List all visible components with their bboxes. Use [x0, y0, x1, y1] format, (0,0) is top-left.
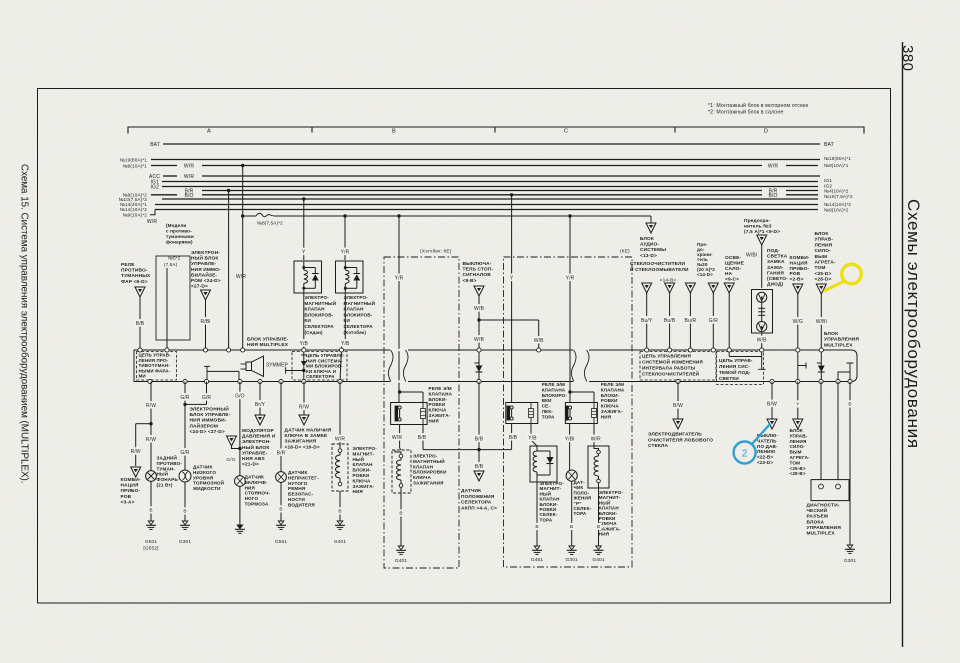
svg-text:B/B: B/B — [136, 321, 145, 327]
svg-text:СТЕКЛООЧИСТИТЕЛИИ СТЕКЛООМЫВАТ: СТЕКЛООЧИСТИТЕЛИИ СТЕКЛООМЫВАТЕЛИ — [630, 261, 689, 273]
svg-text:W/B: W/B — [757, 337, 767, 343]
wire cabin light — [728, 293, 730, 348]
key lock relay 2 — [565, 403, 597, 424]
fuse No20 connector — [708, 283, 718, 293]
svg-text:G401: G401 — [395, 558, 408, 564]
ignition lock illumination LED box — [752, 290, 773, 334]
svg-text:W/R: W/R — [768, 163, 778, 169]
svg-text:G401: G401 — [592, 557, 605, 563]
svg-text:В: В — [535, 524, 538, 530]
svg-text:ЭЛЕКТРОН-НЫЙ БЛОКУПРАВЛЕ-НИЯ И: ЭЛЕКТРОН-НЫЙ БЛОКУПРАВЛЕ-НИЯ ИММО-БИЛАЙЗ… — [191, 250, 221, 290]
KE variant box right — [504, 257, 633, 567]
svg-text:R/W: R/W — [131, 449, 141, 455]
R/W label upper — [145, 401, 156, 409]
W/Bl label powertrain — [814, 317, 828, 325]
ignition key lock solenoid dashed — [332, 444, 348, 491]
internal link fog output — [204, 366, 239, 381]
W/B label left branch — [473, 335, 484, 343]
svg-text:B/B: B/B — [475, 436, 484, 442]
wire Y powertrain bottom — [797, 382, 799, 420]
wire R/W to rear fog lamp — [150, 424, 152, 471]
stop lamp switch connector — [474, 286, 484, 296]
B label selector solenoid — [534, 523, 539, 530]
svg-text:Bu/R: Bu/R — [685, 318, 697, 324]
selector lock solenoid hatchback — [336, 261, 364, 293]
svg-text:Y/R: Y/R — [341, 249, 350, 255]
Y label powertrain bottom — [795, 400, 800, 407]
B/B label AT sensor — [473, 462, 484, 470]
wire W/B stop to mpx — [478, 320, 480, 348]
wire fuse No5 — [166, 268, 168, 348]
svg-text:W/Bl: W/Bl — [746, 253, 757, 259]
wire W/R relay to solenoid hatch — [399, 425, 401, 449]
fuse9-2 left bracket — [150, 210, 155, 215]
Y label selector relay — [509, 274, 514, 282]
fused branch line y216 — [243, 215, 256, 217]
svg-text:B/W: B/W — [673, 403, 683, 409]
svg-text:№4(10А)*2: №4(10А)*2 — [824, 189, 849, 194]
B label key lock — [337, 507, 342, 514]
bus line ACC W/R — [163, 175, 177, 177]
svg-text:Y: Y — [510, 275, 514, 281]
W/R label hatch — [391, 433, 402, 441]
svg-text:W/R: W/R — [184, 163, 194, 169]
ABS connector — [255, 415, 265, 425]
wire B selector solenoid — [536, 482, 538, 546]
wire B solenoid hatch — [400, 487, 402, 546]
selector lock relay — [506, 403, 538, 424]
svg-text:G/R: G/R — [180, 450, 190, 456]
wire Y solenoid sedan drop — [303, 199, 305, 260]
svg-text:IG2: IG2 — [150, 185, 159, 191]
B label P sensor — [569, 523, 574, 530]
wire W/R drop x243 — [242, 166, 244, 349]
W/R label key lock — [334, 435, 345, 443]
coil feed branch hatch relay — [400, 391, 423, 393]
wire W/B branch horizontal — [479, 319, 539, 321]
Bu/Y label — [640, 316, 654, 324]
svg-text:C: C — [564, 129, 568, 135]
outer page rule line — [902, 42, 904, 647]
svg-text:B/B: B/B — [509, 435, 518, 441]
svg-text:В: В — [399, 511, 402, 517]
Y/B label selector solenoid — [527, 434, 538, 442]
wire W/Bl powertrain — [820, 294, 822, 348]
svg-text:*2: Монтажный блок в салоне: *2: Монтажный блок в салоне — [708, 109, 783, 116]
rear fog lamp symbol — [146, 471, 157, 482]
blue highlight circle 2 — [734, 442, 756, 464]
junction dot Y selector relay — [510, 193, 513, 196]
selector-lock signal wire through box with arrow — [303, 350, 305, 361]
box break squiggles x573 — [571, 350, 576, 382]
terminal circles bottom edge — [148, 379, 152, 383]
box break gap x573 — [573, 349, 589, 351]
wire B/R seat belt — [280, 382, 282, 522]
page border frame — [38, 89, 891, 604]
svg-text:В: В — [183, 509, 186, 515]
svg-text:B/B: B/B — [475, 464, 484, 470]
coil feed branch key relay 2 — [570, 391, 594, 393]
powertrain wire internal diode — [820, 350, 822, 366]
svg-text:№9(10А)*2: №9(10А)*2 — [123, 213, 148, 218]
svg-text:В: В — [570, 524, 573, 530]
svg-text:Y/B: Y/B — [528, 435, 537, 441]
junction dot W/R line x243 — [241, 164, 244, 167]
wire R/W key-in — [303, 382, 305, 416]
fog control sub-circuit box — [137, 352, 177, 381]
wiper connector Bu/B — [665, 283, 675, 293]
svg-text:W/R: W/R — [147, 219, 157, 225]
svg-text:A: A — [207, 129, 211, 135]
wire B/W wiper motor — [677, 382, 679, 420]
G/R merge link — [185, 403, 207, 405]
wiper motor connector — [673, 419, 683, 429]
cluster connector 3A — [131, 467, 141, 477]
wire Br/Y — [259, 382, 261, 416]
B label seat belt — [278, 505, 283, 512]
ground G401 hatch — [398, 546, 404, 550]
bus line IG2 — [162, 186, 818, 188]
ground parking brake — [237, 525, 243, 529]
P position sensor symbol — [566, 470, 577, 481]
svg-text:W/R: W/R — [184, 174, 194, 180]
Y/B label hatch — [340, 339, 351, 347]
svg-text:D: D — [764, 129, 768, 135]
svg-text:В: В — [279, 507, 282, 513]
Bu/R label — [683, 316, 697, 324]
wire B key lock — [339, 491, 341, 521]
wire B rear fog to ground — [150, 481, 152, 521]
wire W/B right branch — [538, 320, 540, 348]
AT selector position connector — [474, 471, 484, 481]
wire G/R fuse20 — [712, 293, 714, 348]
bus line fuse10 — [162, 198, 818, 200]
ignition key lock solenoid 2 box — [588, 446, 609, 488]
svg-text:BAT: BAT — [824, 142, 834, 148]
yellow highlight circle — [842, 264, 862, 284]
svg-text:ЭЛЕКТРО-МАГНИТНЫЙКЛАПАНБЛОКИРО: ЭЛЕКТРО-МАГНИТНЫЙКЛАПАНБЛОКИРОВКИКЛЮЧАЗА… — [413, 454, 447, 486]
Y/Bl label — [563, 435, 577, 443]
R/W branch to cluster — [136, 423, 151, 425]
wire Y/Bl P sensor — [569, 424, 571, 471]
svg-text:B/W: B/W — [767, 401, 777, 407]
fuse No3 connector — [757, 235, 767, 245]
wire R/Bl immobilizer — [205, 300, 207, 348]
junction dot Y/R key relay — [568, 214, 571, 217]
B label solenoid hatch — [398, 509, 403, 516]
diagnostic connector box — [811, 480, 849, 501]
zone bracket — [128, 127, 864, 134]
svg-text:№9(10А)*1: №9(10А)*1 — [824, 163, 849, 168]
svg-text:G601: G601 — [145, 539, 158, 545]
wire Y/R key-lock relay hatch drop — [398, 216, 400, 403]
wire B/B down to AT sensor — [478, 450, 480, 470]
svg-text:№14(10А)*2: №14(10А)*2 — [824, 202, 851, 207]
box break gap x390 — [390, 349, 408, 351]
R/Bl label — [199, 317, 213, 325]
svg-text:В: В — [149, 508, 152, 514]
svg-text:G/R: G/R — [709, 318, 719, 324]
svg-text:BAT: BAT — [150, 142, 160, 148]
fog lamp relay connector — [135, 287, 145, 297]
immobilizer connector bottom — [227, 436, 237, 446]
wire B key solenoid 2 — [598, 483, 600, 546]
junction dot W/B branch — [477, 318, 480, 321]
B/B label fog relay wire — [134, 319, 145, 327]
ground G551 — [278, 521, 284, 525]
svg-text:W/R: W/R — [591, 436, 601, 442]
immobilizer ecu connector — [201, 290, 211, 300]
fuse No5 box — [156, 256, 190, 340]
bus line fuse19 — [151, 159, 820, 161]
wire to diag connector b — [837, 382, 839, 480]
W/G label — [792, 317, 803, 325]
svg-text:R/Bl: R/Bl — [200, 319, 210, 325]
cabin light connector — [724, 283, 734, 293]
svg-text:ЭЛЕКТРОННЫЙБЛОК УПРАВЛЕ-НИЯ ИМ: ЭЛЕКТРОННЫЙБЛОК УПРАВЛЕ-НИЯ ИММОБИ-ЛАЙЗЕ… — [190, 405, 231, 435]
ground G401 right — [596, 546, 602, 550]
G/R label merged — [179, 448, 190, 456]
Y/B label sedan — [298, 339, 309, 347]
svg-text:G401: G401 — [334, 539, 347, 545]
wire Y/B selector solenoid — [530, 424, 532, 441]
svg-text:Bu/B: Bu/B — [664, 318, 676, 324]
svg-text:B/O: B/O — [768, 193, 777, 199]
svg-text:Y/R: Y/R — [566, 275, 575, 281]
svg-text:G301: G301 — [844, 558, 857, 564]
wiper connector Bu/R — [685, 283, 695, 293]
wire B/B fog relay — [139, 297, 141, 348]
svg-text:№14(10А)*2: №14(10А)*2 — [120, 207, 147, 212]
wire W/G cluster — [797, 294, 799, 348]
svg-text:2: 2 — [742, 449, 748, 460]
wire W/B LED to mpx — [761, 333, 763, 348]
B/W label wiper motor — [673, 401, 684, 409]
wire Y/B sedan solenoid to mpx — [303, 293, 305, 348]
svg-text:G/R: G/R — [180, 395, 190, 401]
B/B net horizontal — [423, 449, 512, 451]
svg-text:G/O: G/O — [226, 457, 235, 463]
W/B label right branch — [533, 336, 544, 344]
svg-text:№10(7,5А)*2: №10(7,5А)*2 — [824, 194, 853, 199]
G/R label fuse20 — [708, 316, 719, 324]
wire G/R b — [206, 382, 208, 405]
junction dot fuse branch x243 — [241, 214, 244, 217]
bus line fuse14-40 — [155, 204, 818, 206]
svg-text:В: В — [597, 524, 600, 530]
svg-text:Схема 15. Система управления э: Схема 15. Система управления электрообор… — [19, 164, 30, 484]
internal stub link to selector wire — [286, 367, 304, 374]
svg-text:380: 380 — [899, 45, 916, 72]
brake fluid level sensor symbol — [179, 470, 190, 483]
svg-text:Y: Y — [302, 249, 306, 255]
G/O label upper — [234, 392, 245, 400]
wire G/R a — [184, 382, 186, 522]
selector lock solenoid bottom box — [530, 446, 557, 482]
powertrain connector bottom — [793, 419, 803, 429]
wire branch to audio unit — [570, 215, 651, 217]
wire Y/R key relay drop — [569, 216, 571, 403]
ground G301 left — [182, 521, 188, 525]
wire Y selector relay drop — [511, 195, 513, 403]
svg-text:W/R: W/R — [236, 274, 246, 280]
svg-text:(КЕ): (КЕ) — [620, 249, 630, 255]
key-in sensor connector — [299, 415, 309, 425]
hatchback KE variant box left — [384, 257, 459, 568]
svg-text:№8(7,5А)*2: №8(7,5А)*2 — [257, 221, 283, 226]
B/W label pressure switch — [767, 400, 778, 408]
ground G301 mid — [569, 546, 575, 550]
fuse No8 7.5A symbol — [256, 213, 274, 216]
svg-text:№19(80А)*1: №19(80А)*1 — [120, 158, 147, 163]
illumination sub-circuit box — [717, 352, 764, 385]
B label brake fluid — [182, 507, 187, 514]
svg-text:Bu/Y: Bu/Y — [641, 318, 653, 324]
wire B/W pressure switch — [771, 382, 773, 420]
Y/R label relay hatch — [393, 274, 404, 282]
wire B to ground right — [849, 382, 851, 546]
svg-text:ЭЛЕКТРО-МАГНИТНЫЙКЛАПАНБЛОКИРО: ЭЛЕКТРО-МАГНИТНЫЙКЛАПАНБЛОКИРОВ-КИСЕЛЕКТ… — [305, 295, 337, 335]
svg-text:В: В — [338, 509, 341, 515]
svg-text:G451: G451 — [531, 557, 544, 563]
svg-text:G301: G301 — [179, 539, 192, 545]
wire Y/R solenoid hatch drop — [344, 216, 346, 260]
svg-text:*1: Монтажный блок в моторном: *1: Монтажный блок в моторном отсеке — [708, 102, 809, 109]
buzzer symbol — [246, 362, 252, 371]
G/R label a — [179, 393, 190, 401]
box break squiggles x390 — [388, 350, 393, 382]
svg-text:Y/B: Y/B — [300, 341, 309, 347]
svg-text:W/B: W/B — [474, 337, 484, 343]
multiplex control unit box — [134, 350, 857, 382]
svg-text:W/Bl: W/Bl — [816, 319, 827, 325]
G/R label b — [201, 393, 212, 401]
R/W label lower — [145, 435, 156, 443]
svg-text:Y/B: Y/B — [341, 341, 350, 347]
W/B label upper — [473, 304, 484, 312]
svg-text:В: В — [848, 402, 851, 408]
svg-text:ДАТЧИКВКЛЮЧЕ-НИЯСТОЯНОЧ-НОГОТО: ДАТЧИКВКЛЮЧЕ-НИЯСТОЯНОЧ-НОГОТОРМОЗА — [245, 475, 271, 507]
key-selector lock sub-circuit box — [292, 352, 347, 381]
wiper connector Bu/Y — [642, 283, 652, 293]
svg-text:Схемы электрооборудования: Схемы электрооборудования — [904, 199, 923, 449]
seat belt switch symbol — [276, 472, 286, 482]
junction dot Y drop — [302, 197, 305, 200]
wiper interval sub-circuit box — [640, 352, 716, 381]
B/B label selector relay — [507, 433, 518, 441]
terminal circles top edge — [138, 348, 142, 352]
ground G301 right — [847, 545, 853, 549]
wire Bu/B wiper — [669, 293, 671, 348]
wire G/O — [239, 382, 241, 526]
svg-text:(7,5А): (7,5А) — [164, 262, 178, 267]
powertrain ecu connector top — [816, 284, 826, 294]
illumination internal wiring — [729, 350, 765, 369]
cluster wire internal — [798, 350, 806, 382]
R/W label key-in — [298, 403, 309, 411]
Y/R label solenoid hatch — [339, 248, 350, 256]
ground G451 — [534, 546, 540, 550]
bus line W/R fuse9-1 — [151, 165, 177, 167]
immobilizer tap link — [232, 446, 240, 449]
B label right — [847, 400, 852, 407]
svg-text:ЭЛЕКТРО-МАГНИТНЫЙКЛАПАНБЛОКИРО: ЭЛЕКТРО-МАГНИТНЫЙКЛАПАНБЛОКИРОВ-КИСЕЛЕКТ… — [344, 295, 376, 335]
svg-text:R/W: R/W — [146, 403, 156, 409]
svg-text:G551: G551 — [275, 539, 288, 545]
B/B label hatch — [416, 433, 427, 441]
ground G401 mid — [337, 521, 343, 525]
R/W label branch — [130, 447, 141, 455]
svg-text:B/O: B/O — [184, 193, 193, 199]
Y/R label key relay — [565, 274, 576, 282]
svg-text:G/O: G/O — [235, 393, 245, 399]
svg-text:БЛОК УПРАВЛЕ-НИЯ MULTIPLEX: БЛОК УПРАВЛЕ-НИЯ MULTIPLEX — [247, 337, 289, 349]
svg-text:IG1: IG1 — [824, 178, 832, 184]
svg-text:G301: G301 — [566, 557, 579, 563]
junction dot Y/R relay drop — [397, 214, 400, 217]
svg-text:W/G: W/G — [793, 319, 803, 325]
wire Y/B hatch solenoid to mpx — [344, 293, 346, 342]
stop signal diode in mpx — [478, 350, 480, 366]
svg-text:Br/Y: Br/Y — [255, 402, 266, 408]
internal stub right end — [838, 363, 854, 382]
wire B P sensor — [571, 481, 573, 546]
Bu/B label — [663, 316, 677, 324]
audio unit connector — [646, 223, 656, 233]
svg-text:G/R: G/R — [202, 395, 212, 401]
B/B label stop branch — [473, 435, 484, 443]
junction dot Y/R drop — [343, 214, 346, 217]
G/O label lower — [226, 456, 237, 463]
svg-text:W/R: W/R — [335, 436, 345, 442]
wire W/Bl fuse3 to LED — [761, 245, 763, 288]
svg-text:[G552]: [G552] — [143, 546, 158, 552]
svg-text:B: B — [392, 129, 396, 135]
wire B/B relay out hatch — [422, 424, 424, 450]
svg-text:№19(80А)*1: №19(80А)*1 — [824, 156, 851, 161]
svg-text:W/B: W/B — [474, 306, 484, 312]
svg-text:W/R: W/R — [392, 435, 402, 441]
svg-text:B/B: B/B — [418, 435, 427, 441]
svg-text:Y/Bl: Y/Bl — [565, 436, 575, 442]
instrument cluster connector — [793, 284, 803, 294]
bus line fuse14-10 — [155, 209, 818, 211]
svg-text:(Хэтчбек: КЕ): (Хэтчбек: КЕ) — [420, 249, 452, 255]
B/R label seat belt — [275, 449, 286, 457]
svg-text:B/R: B/R — [277, 450, 286, 456]
svg-text:Y/R: Y/R — [395, 275, 404, 281]
wire Bu/Y wiper — [646, 293, 648, 348]
svg-text:R/W: R/W — [299, 404, 309, 410]
Y label solenoid sedan — [301, 248, 306, 256]
wire R/W from mpx — [150, 382, 152, 424]
parking brake switch symbol — [235, 476, 245, 486]
svg-text:№5*2: №5*2 — [168, 256, 181, 261]
wire W/B stop signal upper — [478, 296, 480, 320]
bus line IG1 — [162, 181, 818, 183]
key lock relay hatch — [391, 403, 428, 425]
B label key solenoid 2 — [596, 523, 601, 530]
svg-text:№9(10А)*1: №9(10А)*1 — [123, 164, 148, 169]
svg-text:№9(10А)*2: №9(10А)*2 — [824, 208, 849, 213]
bus BAT line — [163, 143, 820, 145]
svg-text:W/B: W/B — [534, 338, 544, 344]
svg-text:R/W: R/W — [146, 437, 156, 443]
key-lock signal wire through box — [340, 350, 342, 382]
wire Bu/R wiper — [689, 293, 691, 348]
wire to diag connector a — [820, 382, 822, 480]
pressure switch connector — [767, 419, 777, 429]
